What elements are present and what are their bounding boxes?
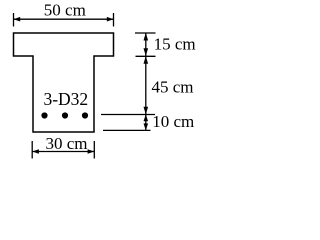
45 cm dimension line with arrows <box>145 56 147 115</box>
rebar dot 2 <box>62 112 68 118</box>
bottom dimension left arrowhead <box>32 149 39 154</box>
T-beam cross-section outline <box>14 33 114 132</box>
top dimension right arrowhead <box>107 17 114 22</box>
right dimension chain tick at flange bottom <box>136 55 156 57</box>
extension line at beam bottom <box>103 129 151 131</box>
right dimension chain tick at flange top <box>135 32 156 34</box>
bottom dimension tick left <box>31 141 33 159</box>
rebar dot 1 <box>41 112 47 118</box>
top dimension left arrowhead <box>14 17 21 22</box>
rebar dot 3 <box>82 112 88 118</box>
top dimension line <box>14 18 114 20</box>
top dimension tick left <box>13 13 15 27</box>
10 cm dimension arrows <box>145 115 147 131</box>
bottom dimension right arrowhead <box>88 149 95 154</box>
svg-text:50 cm: 50 cm <box>44 0 86 19</box>
svg-text:3-D32: 3-D32 <box>43 89 88 109</box>
15 cm dimension line with arrows <box>145 33 147 56</box>
svg-text:10 cm: 10 cm <box>152 112 194 131</box>
extension line at rebar level <box>101 114 155 116</box>
top dimension tick right <box>113 13 115 27</box>
svg-text:45 cm: 45 cm <box>152 77 194 96</box>
bottom dimension tick right <box>93 141 95 159</box>
svg-text:15 cm: 15 cm <box>154 34 196 53</box>
svg-text:30 cm: 30 cm <box>45 134 87 153</box>
bottom dimension line <box>32 151 94 153</box>
